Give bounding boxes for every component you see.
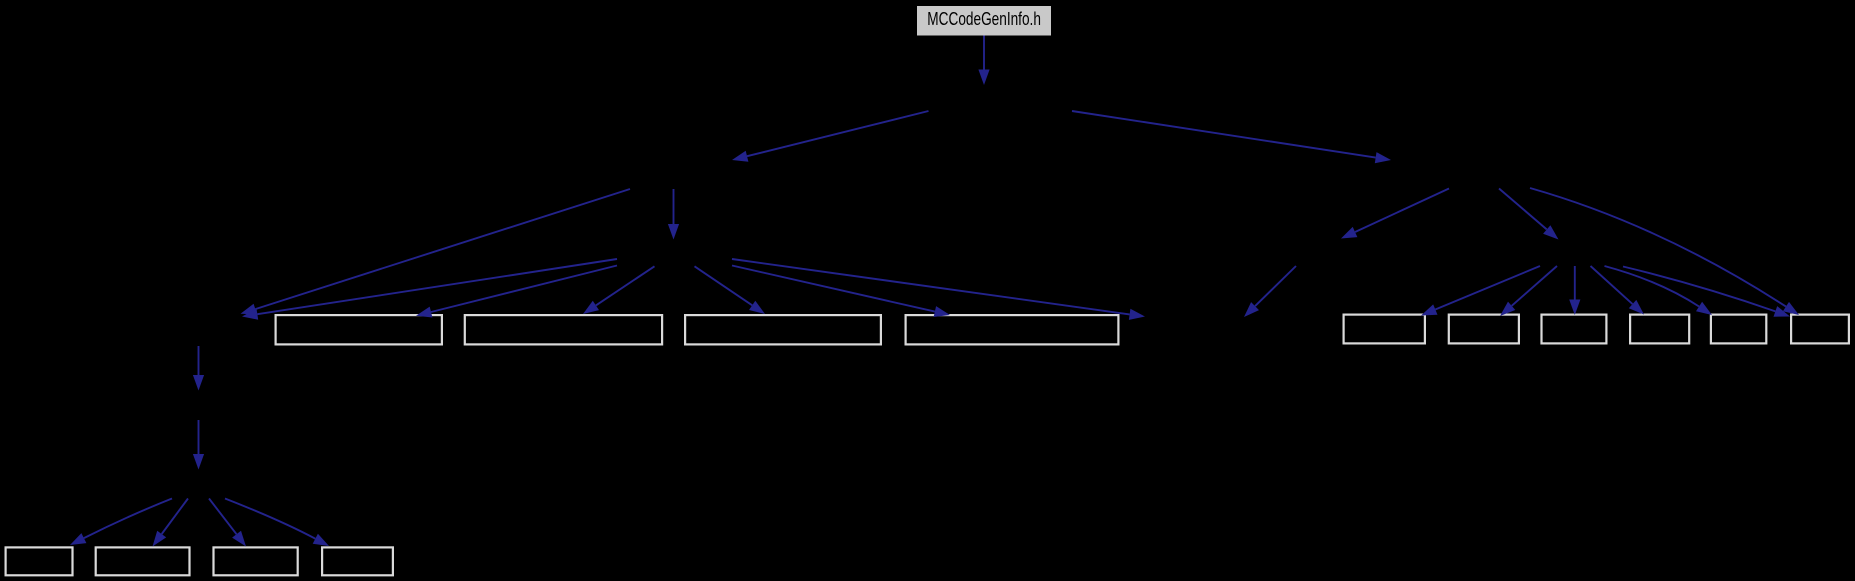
edge F3->B1 — [70, 499, 172, 546]
node box R5 — [1711, 315, 1766, 344]
edge D->N — [732, 259, 1145, 320]
edge A->C — [1072, 111, 1391, 163]
node box B4 — [322, 547, 393, 575]
edge F3->B4 — [225, 499, 329, 547]
edge E2->R3 — [1569, 266, 1580, 315]
edge D->L3 — [695, 266, 766, 314]
edge A->B — [732, 111, 929, 162]
edge E2->R6 — [1623, 267, 1790, 317]
node box R6 — [1791, 315, 1849, 344]
edge C->E1 — [1341, 189, 1449, 239]
edge D->L2 — [583, 266, 655, 314]
edge E1->N — [1244, 266, 1296, 317]
edge B->D — [668, 189, 679, 240]
edge F->F2 — [193, 346, 204, 391]
edge D->L1 — [416, 266, 617, 318]
edge C->R6 — [1530, 188, 1799, 315]
edge F2->F3 — [193, 420, 204, 470]
edge C->E2 — [1499, 189, 1559, 240]
edge F3->B3 — [209, 499, 246, 547]
edge B->F — [241, 189, 631, 314]
svg-text:MCCodeGenInfo.h: MCCodeGenInfo.h — [927, 9, 1041, 30]
node box R1 — [1344, 315, 1425, 344]
edge F3->B2 — [153, 499, 189, 547]
node box L3 — [685, 315, 881, 344]
edge root->A — [978, 36, 989, 86]
node box R3 — [1542, 315, 1607, 344]
edge D->F — [242, 259, 617, 320]
node box R4 — [1630, 315, 1689, 344]
node box R2 — [1449, 315, 1519, 344]
node box L4 — [906, 315, 1119, 344]
node box B2 — [96, 547, 190, 575]
node box B1 — [6, 547, 73, 575]
edge E2->R1 — [1421, 266, 1540, 316]
edge E2->R2 — [1500, 266, 1557, 316]
node box L2 — [465, 315, 662, 344]
edge D->L4 — [732, 266, 950, 318]
node MCCodeGenInfo.h (root) — [917, 6, 1051, 36]
node box L1 — [276, 315, 442, 344]
edge E2->R4 — [1591, 266, 1645, 315]
node box B3 — [214, 547, 298, 575]
edge E2->R5 — [1605, 266, 1713, 315]
